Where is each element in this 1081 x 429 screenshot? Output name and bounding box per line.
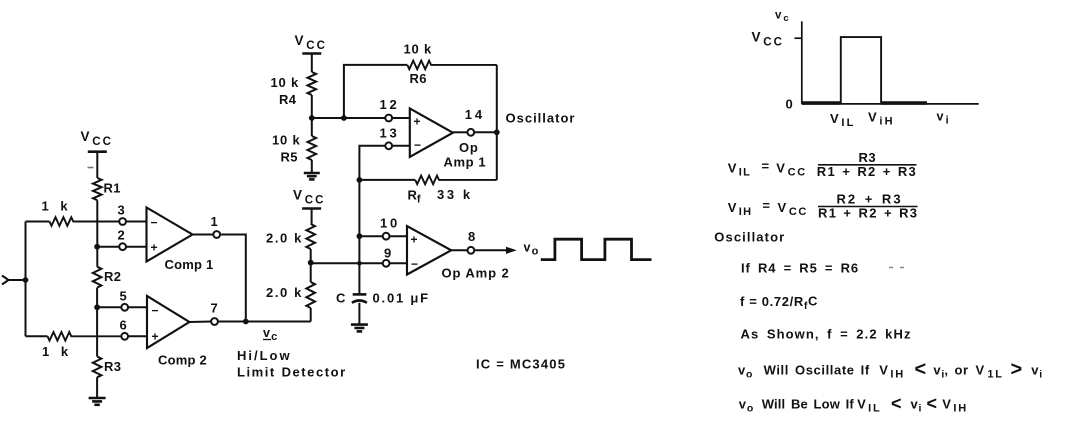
square wave vo (541, 239, 652, 259)
svg-text:R5: R5 (281, 150, 298, 165)
graph zero trace thick right (881, 101, 927, 104)
wire Rf right vertical (496, 132, 498, 180)
op-amp Op Amp 1 (410, 109, 453, 157)
svg-text:vc: vc (263, 326, 277, 343)
svg-text:VCC: VCC (752, 30, 785, 49)
pin 12 terminal (385, 115, 392, 122)
wire R3 to ground (96, 377, 98, 397)
svg-text:vc: vc (775, 10, 789, 25)
svg-text:+: + (151, 241, 158, 255)
svg-text:R1 + R2 + R3: R1 + R2 + R3 (818, 206, 918, 221)
svg-text:2.0 k: 2.0 k (266, 231, 303, 246)
node vc junction (243, 319, 249, 325)
pin 7 terminal (211, 318, 218, 325)
svg-text:+: + (411, 233, 418, 247)
wire divider to pin 12 (312, 117, 385, 119)
svg-text:R1 + R2 + R3: R1 + R2 + R3 (817, 164, 917, 179)
wire opamp2 out (451, 249, 467, 251)
svg-text:f = 0.72/RfC: f = 0.72/RfC (740, 294, 818, 312)
svg-text:VIL: VIL (830, 111, 856, 129)
wire vo arrow (474, 249, 508, 251)
op-amp Op Amp 2 (407, 226, 451, 274)
svg-text:=: = (762, 159, 770, 174)
scan artifact dash (88, 167, 94, 169)
wire R4-R5 node (311, 95, 313, 136)
svg-text:VIH: VIH (728, 200, 753, 218)
svg-text:−: − (414, 138, 421, 152)
pin 14 terminal (467, 129, 474, 136)
resistor R2 (93, 267, 102, 288)
wire R1 to R2 rail (96, 200, 98, 267)
svg-text:8: 8 (468, 229, 475, 244)
wire pin5 (97, 306, 121, 308)
svg-text:VCC: VCC (81, 129, 114, 148)
svg-text:12: 12 (380, 97, 400, 112)
svg-text:Hi/Low: Hi/Low (237, 348, 292, 363)
svg-text:R2 + R3: R2 + R3 (837, 192, 903, 207)
wire opamp1 out (453, 131, 467, 133)
capacitor C (353, 293, 367, 296)
resistor R3 (93, 357, 102, 378)
node pin10 tap (357, 233, 363, 239)
input terminal vi (2, 276, 9, 285)
svg-text:If R4 = R5 = R6: If R4 = R5 = R6 (741, 260, 859, 275)
node R4/R5 divider (309, 115, 315, 121)
comparator Comp 1 (147, 208, 193, 262)
resistor R5 (308, 136, 317, 160)
svg-text:−: − (151, 216, 158, 230)
svg-text:VCC: VCC (295, 33, 328, 52)
svg-text:−: − (152, 304, 159, 318)
graph VCC tick (795, 37, 802, 39)
svg-text:vi,: vi, (933, 362, 948, 380)
pin 5 terminal (121, 304, 128, 311)
svg-text:−: − (411, 257, 418, 271)
svg-text:ViH: ViH (868, 109, 895, 127)
svg-text:Op Amp 2: Op Amp 2 (442, 266, 510, 281)
ground (C) (351, 323, 368, 326)
svg-text:1 k: 1 k (42, 199, 72, 214)
wire pin10 (359, 235, 382, 237)
svg-text:Amp 1: Amp 1 (444, 155, 487, 170)
wire VCC to 2.0k (311, 209, 313, 225)
svg-text:+: + (152, 330, 159, 344)
resistor R6 feedback (344, 65, 407, 118)
wire C to ground (358, 303, 360, 324)
svg-text:R4: R4 (279, 92, 297, 107)
svg-text:10 k: 10 k (271, 75, 300, 90)
wire R5 to ground (311, 160, 313, 172)
wire divider to pin 9 (311, 262, 383, 264)
svg-text:R3: R3 (104, 359, 121, 374)
node input junction (23, 277, 29, 283)
svg-text:R2: R2 (104, 269, 121, 284)
svg-text:13: 13 (380, 126, 400, 141)
wire pin13 down to C (359, 146, 385, 295)
wire vc bus (218, 321, 311, 323)
svg-text:3: 3 (118, 203, 125, 218)
svg-text:0: 0 (786, 97, 793, 112)
wire VCC to R4 (311, 54, 313, 73)
svg-text:VIL: VIL (728, 161, 751, 179)
node 2k divider (308, 260, 314, 266)
wire R2 to R3 rail (96, 288, 98, 357)
ground (R5) (304, 172, 320, 175)
node R6 branch (341, 115, 347, 121)
svg-text:33 k: 33 k (437, 187, 473, 202)
svg-text:6: 6 (120, 318, 127, 333)
pin 10 terminal (383, 233, 390, 240)
wire pin2 (97, 246, 119, 248)
resistor 1k (bottom) (26, 335, 48, 337)
wire left vertical rail (25, 222, 27, 337)
pin 6 terminal (121, 333, 128, 340)
svg-text:Will Oscillate If: Will Oscillate If (764, 363, 870, 378)
svg-text:V1L: V1L (976, 363, 1004, 381)
svg-text:R6: R6 (410, 71, 427, 86)
wire pin3 to comp1 (126, 221, 147, 223)
pin 1 terminal (213, 231, 220, 238)
node pin2 tap (94, 244, 100, 250)
svg-text:14: 14 (465, 107, 485, 122)
svg-text:<: < (915, 359, 927, 381)
svg-text:Op: Op (459, 140, 479, 155)
wire comp1 out (193, 234, 214, 236)
arrowhead vo (506, 247, 517, 254)
svg-text:10: 10 (380, 216, 400, 231)
ground (R3) (89, 397, 106, 400)
svg-text:<: < (891, 394, 902, 414)
svg-text:C: C (336, 291, 346, 306)
svg-text:7: 7 (211, 301, 218, 316)
svg-text:Oscillator: Oscillator (714, 230, 785, 245)
pin 9 terminal (383, 260, 390, 267)
resistor 1k (top) (26, 221, 50, 223)
svg-text:VCC: VCC (293, 188, 326, 207)
node pin5 tap (94, 304, 100, 310)
node crossing C line (357, 261, 362, 266)
svg-text:IC = MC3405: IC = MC3405 (476, 357, 566, 372)
svg-text:2.0 k: 2.0 k (266, 285, 303, 300)
svg-text:1: 1 (211, 214, 218, 229)
svg-text:Comp 2: Comp 2 (158, 353, 207, 368)
svg-text:vi: vi (911, 397, 922, 415)
svg-text:Limit Detector: Limit Detector (237, 365, 347, 380)
wire 2.0k to vc bus (310, 308, 312, 322)
graph x-axis (802, 103, 979, 105)
svg-text:0.01 μF: 0.01 μF (373, 291, 430, 306)
wire pin1 to vc node (220, 235, 246, 322)
svg-text:Oscillator: Oscillator (506, 111, 576, 126)
svg-text:=: = (762, 198, 770, 213)
pin 8 terminal (468, 247, 475, 254)
graph pulse trace (841, 37, 881, 104)
svg-text:As Shown, f = 2.2 kHz: As Shown, f = 2.2 kHz (741, 327, 912, 342)
svg-text:+: + (414, 115, 421, 129)
svg-text:VIL: VIL (857, 397, 881, 415)
svg-text:2: 2 (118, 228, 125, 243)
svg-text:vi: vi (1031, 363, 1042, 381)
svg-text:VCC: VCC (776, 161, 806, 179)
svg-text:or: or (955, 363, 969, 378)
wire R6 right vertical (496, 65, 498, 132)
svg-text:10 k: 10 k (272, 133, 301, 148)
svg-text:Will Be Low If: Will Be Low If (762, 397, 855, 412)
svg-text:>: > (1011, 359, 1023, 381)
svg-text:vo: vo (738, 363, 752, 381)
svg-text:vo: vo (524, 241, 539, 258)
graph zero trace thick left (802, 101, 841, 104)
resistor R4 (308, 72, 317, 95)
svg-text:1 k: 1 k (42, 344, 72, 359)
resistor 2.0 k (upper) (306, 224, 315, 249)
svg-text:R1: R1 (104, 181, 121, 196)
svg-text:Rf: Rf (408, 188, 421, 206)
node Rf left junction (357, 177, 363, 183)
resistor 2.0 k (lower) (306, 282, 315, 308)
svg-text:VCC: VCC (778, 200, 808, 218)
wire VCC to R1 (96, 152, 98, 178)
svg-text:5: 5 (120, 289, 127, 304)
pin 3 terminal (119, 218, 126, 225)
svg-text:vi: vi (937, 110, 949, 127)
graph y-axis (801, 21, 803, 104)
svg-text:VIH: VIH (942, 397, 968, 415)
svg-text:<: < (927, 394, 938, 414)
comparator Comp 2 (147, 296, 189, 348)
resistor R1 (93, 178, 102, 200)
svg-text:vo: vo (739, 397, 753, 415)
pin 13 terminal (385, 142, 392, 149)
svg-text:9: 9 (384, 246, 391, 261)
svg-text:10 k: 10 k (404, 42, 433, 57)
pin 2 terminal (119, 243, 126, 250)
wire comp2 out (189, 321, 211, 324)
svg-text:Comp 1: Comp 1 (165, 257, 214, 272)
svg-text:R3: R3 (859, 150, 877, 165)
svg-text:VIH: VIH (879, 363, 905, 381)
wire input to left rail (9, 279, 26, 281)
wire to divider node (310, 249, 312, 282)
node output osc (494, 129, 500, 135)
